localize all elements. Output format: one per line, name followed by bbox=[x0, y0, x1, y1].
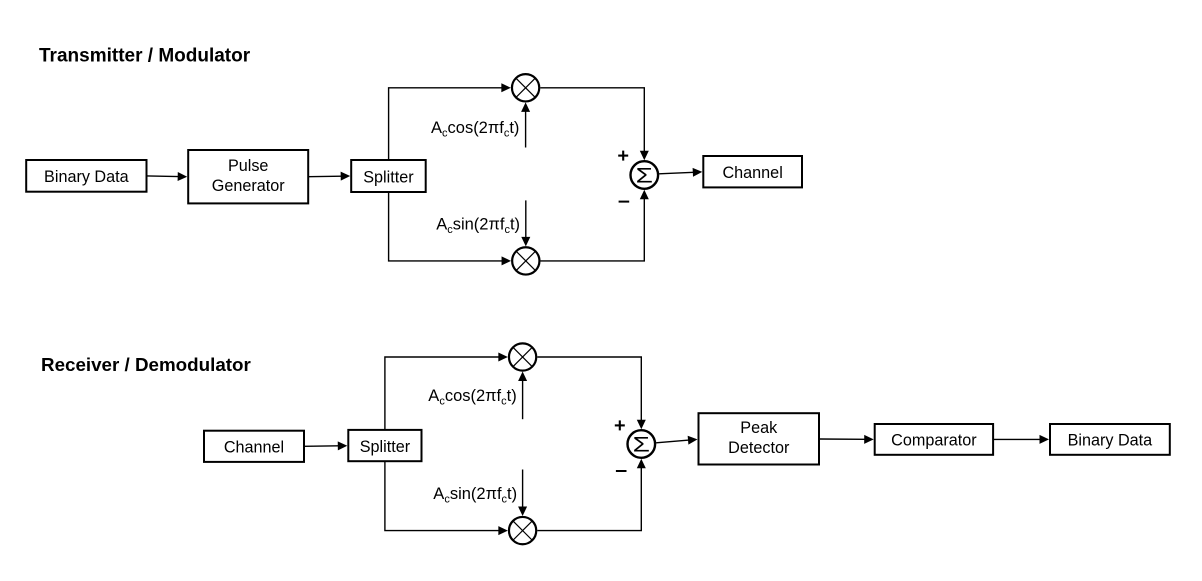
svg-text:Generator: Generator bbox=[212, 177, 285, 195]
svg-text:Binary Data: Binary Data bbox=[1068, 432, 1153, 450]
svg-text:Pulse: Pulse bbox=[228, 157, 269, 175]
svg-text:Receiver / Demodulator: Receiver / Demodulator bbox=[41, 354, 251, 375]
svg-text:Splitter: Splitter bbox=[363, 168, 414, 186]
svg-text:Binary Data: Binary Data bbox=[44, 168, 129, 186]
svg-text:Channel: Channel bbox=[722, 164, 782, 182]
svg-text:Splitter: Splitter bbox=[360, 438, 411, 456]
svg-text:Channel: Channel bbox=[224, 439, 284, 457]
svg-text:Detector: Detector bbox=[728, 439, 790, 457]
svg-text:Peak: Peak bbox=[740, 419, 778, 437]
svg-text:Transmitter / Modulator: Transmitter / Modulator bbox=[39, 46, 251, 67]
svg-text:Σ: Σ bbox=[633, 433, 650, 457]
svg-text:Comparator: Comparator bbox=[891, 432, 977, 450]
svg-text:Σ: Σ bbox=[636, 164, 653, 188]
